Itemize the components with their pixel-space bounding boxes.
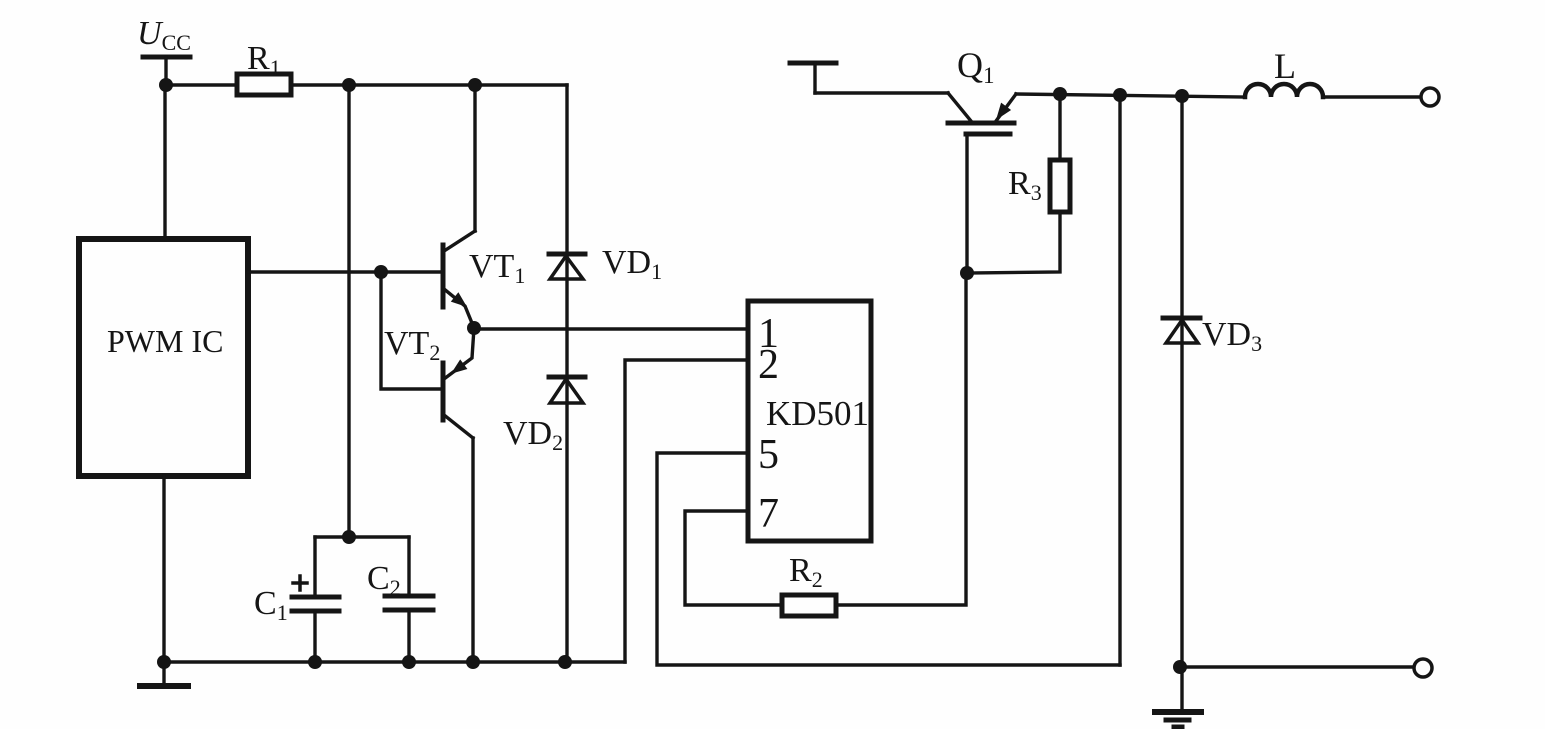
svg-text:R3: R3	[1008, 165, 1042, 205]
svg-text:2: 2	[758, 342, 779, 388]
svg-text:7: 7	[758, 491, 779, 537]
svg-text:UCC: UCC	[137, 15, 191, 55]
svg-text:VD2: VD2	[503, 415, 563, 455]
svg-text:Q1: Q1	[957, 45, 995, 88]
svg-text:VT1: VT1	[469, 248, 525, 288]
svg-text:VD1: VD1	[602, 244, 662, 284]
svg-text:L: L	[1274, 46, 1296, 86]
svg-text:VD3: VD3	[1202, 316, 1262, 356]
svg-text:VT2: VT2	[384, 325, 440, 365]
svg-text:PWM IC: PWM IC	[107, 323, 223, 359]
svg-text:KD501: KD501	[766, 394, 869, 433]
svg-text:5: 5	[758, 432, 779, 478]
svg-text:C1: C1	[254, 585, 288, 625]
svg-text:R2: R2	[789, 552, 823, 592]
svg-text:C2: C2	[367, 560, 401, 600]
svg-text:R1: R1	[247, 40, 281, 80]
